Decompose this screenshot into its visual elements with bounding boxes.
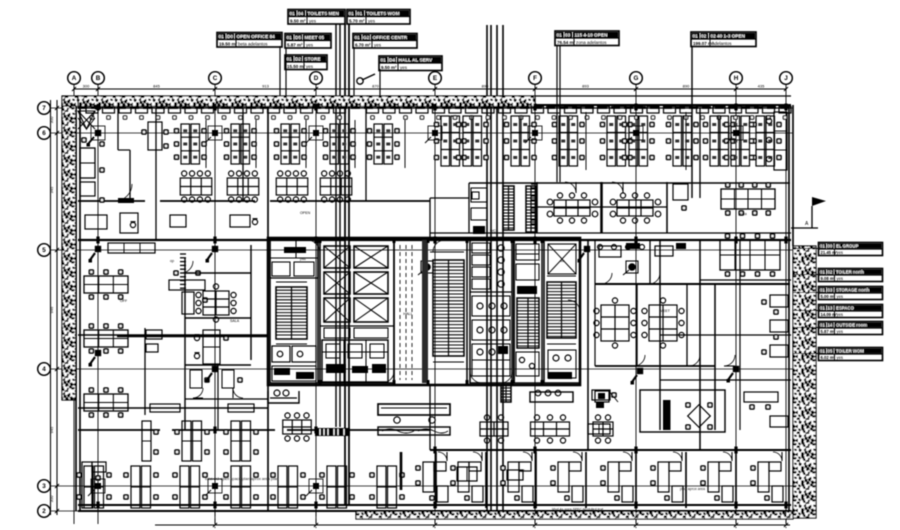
svg-text:D5: D5 — [295, 35, 301, 40]
room text sala at 740 — [740, 212, 747, 216]
bench row y422 b — [531, 415, 570, 443]
svg-text:300: 300 — [49, 116, 54, 123]
left zone meeting table — [196, 284, 236, 322]
right label leader 0100 — [793, 248, 819, 250]
svg-text:6: 6 — [42, 130, 46, 137]
leader line from box 01D5/01D2 — [285, 48, 287, 108]
top band wall desk strip — [78, 107, 791, 120]
top-left hatched corner — [62, 96, 78, 107]
svg-text:870: 870 — [372, 84, 379, 89]
svg-text:F: F — [533, 75, 537, 82]
svg-text:HALL: HALL — [403, 312, 413, 316]
top wall right part — [535, 96, 791, 105]
svg-text:01: 01 — [287, 35, 293, 40]
svg-text:115 4-10 OPEN: 115 4-10 OPEN — [575, 33, 608, 38]
svg-text:01: 01 — [820, 270, 825, 275]
svg-text:01: 01 — [820, 306, 825, 311]
grid line E — [434, 85, 436, 525]
svg-text:D0: D0 — [227, 34, 233, 39]
meeting room doors — [565, 182, 623, 193]
svg-text:5.70 m²: 5.70 m² — [349, 18, 365, 23]
grid line J — [785, 85, 787, 525]
wall right zone y380 — [660, 379, 791, 381]
wall y430 left — [78, 429, 430, 431]
wall left mid y408 — [78, 407, 268, 409]
bench row y422 a — [480, 415, 508, 443]
left zone small cabinet — [146, 330, 162, 352]
lobby dashed lines — [400, 245, 412, 380]
grid line D — [315, 85, 317, 525]
wall vert x268 — [267, 108, 269, 510]
svg-text:D: D — [314, 75, 319, 82]
svg-text:2: 2 — [42, 508, 46, 515]
section line group x487-503 — [487, 25, 503, 510]
room text OFF at 120 — [120, 299, 128, 303]
svg-text:yes: yes — [837, 276, 844, 281]
room text pas at 300 — [300, 257, 306, 261]
right rooms desks y210 — [721, 182, 775, 216]
svg-text:D2: D2 — [295, 57, 301, 62]
right zone small desk — [592, 390, 617, 408]
svg-text:yes: yes — [309, 18, 317, 23]
leader line pair from toilets boxes — [336, 24, 349, 505]
svg-text:6.02 m²: 6.02 m² — [821, 355, 836, 360]
grid bubble A — [68, 72, 81, 85]
reception bench — [378, 427, 450, 435]
svg-text:13: 13 — [828, 306, 833, 311]
bottom right offices — [401, 452, 783, 508]
bottom note text — [205, 476, 279, 481]
section marker A right — [791, 197, 826, 228]
svg-text:H: H — [734, 75, 739, 82]
room text MEET at 660 — [660, 309, 671, 313]
svg-text:A: A — [72, 75, 77, 82]
wall vert x366 — [365, 108, 367, 201]
svg-text:yes: yes — [837, 329, 844, 334]
svg-text:B: B — [96, 75, 101, 82]
svg-text:adelantos: adelantos — [712, 41, 732, 46]
svg-text:OF: OF — [520, 469, 526, 473]
svg-text:890: 890 — [683, 84, 690, 89]
wall vert x660 — [659, 240, 661, 430]
svg-text:300: 300 — [83, 84, 90, 89]
svg-text:6.70 m²: 6.70 m² — [355, 42, 371, 47]
bench row y422 c — [593, 415, 613, 443]
leader line from box 01D4 — [379, 69, 381, 96]
svg-text:OPEN OFFICE 84: OPEN OFFICE 84 — [237, 34, 276, 39]
svg-text:yes: yes — [837, 355, 844, 360]
left zone bench cluster 3 — [84, 387, 128, 418]
left zone bench cluster 1 — [84, 269, 128, 300]
room text op at 170 — [170, 259, 174, 263]
svg-text:4: 4 — [42, 366, 46, 373]
svg-text:01: 01 — [290, 11, 296, 16]
bottom wall text — [552, 508, 603, 512]
svg-text:WC: WC — [490, 229, 496, 233]
meeting table right 1 — [547, 193, 598, 223]
bottom dimension line — [155, 523, 790, 527]
svg-text:9.50 m²: 9.50 m² — [290, 18, 306, 23]
svg-text:7: 7 — [42, 105, 46, 112]
room label box 01G2 OFFICE — [353, 34, 417, 49]
svg-text:yes: yes — [837, 294, 844, 299]
grid bubble row 7 — [38, 102, 51, 115]
right zone x-table — [685, 402, 713, 430]
room text wc at 560 — [560, 259, 565, 263]
svg-text:STORE: STORE — [305, 57, 321, 62]
right label leader 0113 — [793, 310, 819, 312]
left zone wall y336 — [117, 335, 268, 338]
svg-text:yes: yes — [837, 312, 844, 317]
room label box 0102 OFFICE AREA — [691, 32, 756, 47]
top band desk partitions — [206, 112, 686, 170]
svg-text:01: 01 — [349, 11, 355, 16]
svg-text:01: 01 — [287, 57, 293, 62]
svg-text:J: J — [784, 75, 788, 82]
core door arcs — [307, 240, 580, 383]
meeting rooms divider x601 — [600, 182, 602, 233]
meeting rooms glazing line — [537, 206, 667, 208]
grid bubble row 3 — [38, 480, 51, 493]
grid bubble row 2 — [38, 505, 51, 518]
svg-text:01: 01 — [820, 288, 825, 293]
right label box 0103 — [819, 287, 883, 300]
right zone meeting table 1 — [594, 298, 636, 348]
grid bubble J — [780, 72, 793, 85]
svg-text:beta adelantos: beta adelantos — [238, 41, 268, 46]
svg-text:3: 3 — [42, 483, 46, 490]
grid line G — [635, 85, 637, 525]
svg-text:300: 300 — [49, 495, 54, 502]
right zone door arc x735 — [724, 355, 735, 366]
svg-text:HALL AL SERV: HALL AL SERV — [399, 58, 434, 63]
service ladder — [501, 385, 511, 402]
svg-text:21.45 m²: 21.45 m² — [821, 250, 838, 255]
svg-text:STORAGE north: STORAGE north — [836, 288, 870, 293]
svg-text:sala: sala — [740, 212, 747, 216]
svg-text:01: 01 — [557, 33, 563, 38]
svg-text:TOILETS WOM: TOILETS WOM — [367, 11, 400, 16]
small room divider — [115, 108, 134, 203]
reception counter — [378, 404, 450, 423]
svg-text:02: 02 — [828, 270, 833, 275]
svg-text:03: 03 — [565, 33, 571, 38]
grid bubble B — [92, 72, 105, 85]
svg-text:TOILETS MEN: TOILETS MEN — [308, 11, 340, 16]
printer desk mid — [595, 391, 618, 402]
central service core — [270, 237, 580, 386]
right label box 0113 — [819, 305, 883, 318]
svg-text:plan aprox area: plan aprox area — [680, 487, 705, 491]
room text OF at 520 — [520, 469, 526, 473]
top dimension line — [72, 84, 788, 92]
corridor wall y201 left — [78, 200, 430, 202]
grid line row 3 — [51, 485, 794, 487]
svg-text:14: 14 — [828, 323, 833, 328]
right label leader 0105 — [793, 353, 819, 355]
svg-text:19.50 m²: 19.50 m² — [219, 41, 238, 46]
wall left mid y335 — [78, 334, 268, 336]
room label box 01D4 HALL — [379, 56, 442, 71]
room label box 01D5 MEETING — [285, 34, 331, 49]
right label box 0114 — [819, 322, 883, 335]
wall vert x740 — [739, 240, 741, 430]
svg-text:345: 345 — [49, 186, 54, 193]
grid line C — [214, 85, 216, 525]
svg-text:01: 01 — [357, 11, 363, 16]
wall vert x120 — [0, 0, 1, 1]
left zone wall x145 — [144, 328, 146, 415]
grid line continuations — [215, 511, 786, 528]
grid bubble row 6 — [38, 127, 51, 140]
right label box 0102 — [819, 269, 883, 282]
grid bubble row 4 — [38, 363, 51, 376]
room label box 01D2 STORE — [285, 55, 327, 70]
coffee counter left — [268, 390, 299, 403]
grid line row 2 — [51, 510, 794, 512]
svg-text:01: 01 — [381, 58, 387, 63]
column markers row3 — [88, 479, 323, 496]
svg-text:MEET 05: MEET 05 — [305, 35, 325, 40]
svg-text:OPEN: OPEN — [300, 211, 311, 215]
svg-text:yes: yes — [306, 42, 314, 47]
service room fixtures — [471, 188, 487, 234]
top hatched wall — [78, 96, 535, 107]
left zone wall y399 — [185, 398, 268, 400]
core outline — [268, 238, 580, 385]
svg-text:01: 01 — [219, 34, 225, 39]
svg-text:C: C — [213, 75, 218, 82]
svg-text:OFFICE CENTR: OFFICE CENTR — [373, 35, 408, 40]
grid bubble C — [209, 72, 222, 85]
svg-text:913: 913 — [262, 84, 269, 89]
bottom hatched wall — [356, 511, 793, 519]
svg-text:02: 02 — [701, 34, 707, 39]
column marker B7 — [87, 105, 106, 147]
left zone bench cluster 2 — [84, 323, 128, 354]
right zone bottom-right desks — [744, 392, 788, 427]
wall vert x430 — [429, 198, 431, 450]
right zone meeting table 2 — [642, 298, 684, 348]
wall inner top — [78, 107, 791, 109]
svg-text:MEET: MEET — [660, 309, 671, 313]
svg-text:9.50 m²: 9.50 m² — [381, 65, 397, 70]
svg-text:893: 893 — [582, 84, 589, 89]
column markers row5 row4 — [89, 246, 740, 385]
chair row below y240 right — [598, 245, 645, 250]
svg-text:01: 01 — [820, 244, 825, 249]
left zone cabinets under y240 — [108, 243, 155, 253]
leader line from box 01G2 — [353, 47, 355, 96]
grid bubble row 5 — [38, 244, 51, 257]
grid line row 5 — [51, 249, 794, 251]
svg-text:TOILER north: TOILER north — [836, 270, 864, 275]
svg-text:05: 05 — [828, 349, 833, 354]
right zone meeting room walls — [595, 284, 715, 366]
room label box 01D0 OPEN OFFICE — [217, 33, 282, 48]
office desk top-left 2 — [80, 182, 105, 203]
right zone wall x715 — [714, 284, 716, 430]
coffee counter mid — [530, 390, 573, 402]
right label leader 0114 — [793, 327, 819, 329]
grid line H — [735, 85, 737, 525]
svg-text:15.50 m²: 15.50 m² — [287, 64, 306, 69]
right label box 0100 — [819, 243, 883, 256]
svg-text:435: 435 — [758, 84, 765, 89]
column markers row6 — [205, 126, 743, 143]
grid bubble D — [310, 72, 323, 85]
svg-text:yes: yes — [374, 42, 382, 47]
right zone right offices — [761, 295, 788, 357]
bottom band benches row1 — [142, 421, 259, 461]
office desk top-left 3 — [141, 122, 169, 150]
room text OPEN at 300 — [300, 211, 311, 215]
left zone wall x251 — [250, 245, 252, 360]
svg-text:yes: yes — [400, 65, 408, 70]
svg-text:pas: pas — [300, 257, 306, 261]
radiator louver x183 — [180, 254, 186, 288]
svg-text:845: 845 — [153, 84, 160, 89]
top band desk clusters — [174, 116, 782, 166]
svg-text:14.09 m²: 14.09 m² — [821, 312, 838, 317]
bottom office extra desks — [457, 467, 523, 481]
left wall — [76, 106, 80, 511]
left dimension line — [49, 100, 59, 515]
meeting tables row mid-left — [180, 171, 352, 202]
svg-text:TOILER WOM: TOILER WOM — [836, 349, 864, 354]
room label box 0104 TOILETS MEN — [288, 10, 345, 25]
grid line B — [97, 85, 99, 525]
office desk top-left — [80, 137, 105, 178]
svg-text:OFF: OFF — [120, 299, 128, 303]
printer cabinets corridor — [85, 213, 258, 233]
right zone top-right desk cluster — [720, 233, 780, 277]
wall vert x700 — [699, 108, 701, 450]
svg-text:945: 945 — [49, 426, 54, 433]
right label leader 0103 — [793, 292, 819, 294]
right label box 0105 — [819, 348, 883, 361]
left zone wall x185 — [184, 258, 186, 430]
reception kite desk — [78, 111, 95, 129]
svg-text:01: 01 — [820, 323, 825, 328]
service shaft ladder 2 — [526, 186, 536, 232]
svg-text:SALA: SALA — [230, 319, 240, 323]
bench with louver — [283, 413, 350, 441]
svg-text:01: 01 — [820, 349, 825, 354]
svg-text:04: 04 — [298, 11, 304, 16]
grid line row 4 — [51, 368, 794, 370]
equipment symbol at 427,267 — [418, 261, 433, 275]
left zone rooms bottom — [190, 365, 243, 430]
left zone window desk — [194, 330, 228, 364]
room label box 0103 OPEN ZONE — [555, 31, 619, 46]
svg-text:5.87 m²: 5.87 m² — [287, 42, 303, 47]
grid bubble F — [529, 72, 542, 85]
svg-text:yes: yes — [837, 250, 844, 255]
svg-text:Mod 4a open SPEC Modulled text: Mod 4a open SPEC Modulled text — [552, 508, 603, 512]
svg-text:01: 01 — [355, 35, 361, 40]
left zone T desk group — [169, 270, 208, 314]
right wall — [789, 105, 793, 511]
svg-text:yes: yes — [306, 64, 314, 69]
wall vert x156 — [155, 108, 157, 240]
svg-text:02 40 1-3 OPEN: 02 40 1-3 OPEN — [711, 34, 746, 39]
bottom band benches row2 — [76, 466, 405, 508]
leader line from box 0102 — [691, 46, 693, 198]
bottom wall — [78, 505, 791, 511]
grid bubble G — [630, 72, 643, 85]
right zone top cabinets — [599, 243, 686, 257]
equipment symbol at 632,267 — [623, 261, 638, 275]
svg-text:op: op — [170, 259, 174, 263]
room text WC at 490 — [490, 229, 496, 233]
right hatched wall — [793, 246, 816, 518]
grid bubble H — [730, 72, 743, 85]
svg-text:76.54 m²: 76.54 m² — [557, 40, 576, 45]
wall right zone y280 — [700, 279, 791, 281]
svg-text:G: G — [634, 75, 639, 82]
grid line F — [534, 85, 536, 525]
svg-text:ESPACO: ESPACO — [836, 306, 854, 311]
structural columns — [96, 104, 787, 509]
right zone top rooms — [595, 240, 790, 284]
svg-text:03: 03 — [828, 288, 833, 293]
wall y240 — [78, 239, 791, 241]
svg-text:D4: D4 — [389, 58, 395, 63]
left zone meeting room walls — [181, 261, 251, 365]
svg-text:5.87 m²: 5.87 m² — [821, 329, 836, 334]
svg-text:199.07 m²: 199.07 m² — [693, 41, 714, 46]
leader line from box 0103 — [557, 46, 560, 182]
bottom left corner L desk — [82, 462, 106, 508]
svg-text:OUTSIDE room: OUTSIDE room — [836, 323, 867, 328]
lobby text — [403, 312, 413, 316]
right label leader 0102 — [793, 274, 819, 276]
wall right zone y335 — [660, 334, 791, 336]
svg-text:9.08 m²: 9.08 m² — [821, 276, 836, 281]
svg-text:01: 01 — [693, 34, 699, 39]
grid line row 7 — [51, 107, 794, 109]
leader line from box 01D0 — [279, 46, 281, 108]
svg-text:5: 5 — [42, 247, 46, 254]
room label box 0101 TOILETS WOMEN — [347, 10, 410, 25]
svg-text:total m2 open space plan aprox: total m2 open space plan aprox area plan — [205, 476, 279, 481]
right wall desk column top — [766, 112, 787, 170]
svg-text:yes: yes — [368, 18, 376, 23]
wall vert x588 — [587, 240, 589, 450]
svg-text:zona adelantos: zona adelantos — [576, 40, 607, 45]
service shaft ladder 1 — [503, 186, 514, 230]
room text SALA at 230 — [230, 319, 240, 323]
meeting rooms band right — [430, 182, 791, 233]
svg-text:EL GROUP: EL GROUP — [836, 244, 858, 249]
right zone tiny table — [588, 424, 610, 434]
svg-text:wc: wc — [560, 259, 565, 263]
grid line A — [73, 85, 75, 525]
svg-text:E: E — [433, 75, 437, 82]
svg-text:5.00 m²: 5.00 m² — [821, 294, 836, 299]
grid bubble E — [429, 72, 442, 85]
svg-text:G2: G2 — [363, 35, 370, 40]
left hatched wall — [62, 106, 76, 400]
bottom note text 2 — [680, 487, 705, 491]
wall y450 right — [430, 449, 791, 451]
wall vert x243 — [242, 108, 244, 201]
meeting table right 2 — [610, 193, 661, 223]
grid line row 6 — [51, 132, 794, 134]
svg-text:00: 00 — [828, 244, 833, 249]
right zone bottom room — [640, 390, 725, 432]
